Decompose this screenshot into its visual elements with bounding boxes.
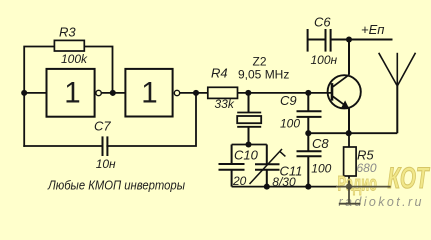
crystal Z2 <box>237 93 261 145</box>
wire bubble1 to node B <box>102 92 126 94</box>
ground <box>348 187 350 204</box>
op-amp U1 inverter 1 <box>47 69 102 117</box>
svg-text:C7: C7 <box>94 118 111 133</box>
svg-text:10н: 10н <box>96 157 116 171</box>
wire R5 to rail <box>348 181 350 187</box>
supply junction <box>346 36 352 42</box>
svg-text:КОТ: КОТ <box>388 162 431 195</box>
svg-text:1: 1 <box>64 76 80 109</box>
svg-text:Z2: Z2 <box>253 55 267 69</box>
svg-text:100k: 100k <box>61 52 88 66</box>
wire C7 left <box>24 145 102 147</box>
wire emitter rail <box>308 132 397 134</box>
capacitor C9 <box>297 93 322 133</box>
emitter antenna junction <box>346 130 352 136</box>
svg-text:20: 20 <box>232 174 247 188</box>
antenna <box>379 53 416 133</box>
wire R4 to base <box>238 92 333 94</box>
resistor R5 <box>344 133 357 181</box>
svg-text:R4: R4 <box>211 66 228 81</box>
C9 C8 emitter junction <box>305 130 311 136</box>
svg-text:radiokot.ru: radiokot.ru <box>339 195 422 209</box>
capacitor C11 trimmer <box>255 145 280 187</box>
svg-text:R3: R3 <box>59 24 76 39</box>
svg-text:100: 100 <box>311 162 331 176</box>
wire left vertical node A <box>24 47 54 147</box>
wire cap bank top <box>232 144 267 146</box>
svg-text:100: 100 <box>280 116 300 130</box>
C11 bottom junction <box>264 184 270 190</box>
node C junction <box>193 90 199 96</box>
svg-text:Любые КМОП инверторы: Любые КМОП инверторы <box>47 178 185 193</box>
wire C7 right to node C <box>107 93 196 146</box>
svg-text:C10: C10 <box>234 148 259 163</box>
capacitor C10 <box>219 145 245 187</box>
C8 bottom junction <box>305 184 311 190</box>
capacitor C8 <box>297 133 322 186</box>
capacitor C7 <box>103 136 108 156</box>
crystal bottom junction <box>245 141 251 147</box>
resistor R3 <box>54 40 84 51</box>
wire ground rail under watermark <box>336 186 391 188</box>
svg-text:+Еп: +Еп <box>361 22 384 37</box>
svg-text:C8: C8 <box>312 136 329 151</box>
svg-text:C9: C9 <box>280 93 297 108</box>
svg-text:33k: 33k <box>215 97 235 111</box>
resistor R4 <box>208 87 238 98</box>
svg-text:C6: C6 <box>314 15 331 30</box>
svg-text:1: 1 <box>141 76 157 109</box>
crystal top junction <box>245 90 251 96</box>
wire inverter1 input <box>24 92 46 94</box>
svg-text:9,05 MHz: 9,05 MHz <box>238 68 289 82</box>
op-amp U2 inverter 2 <box>125 69 179 117</box>
capacitor C6 <box>308 29 393 52</box>
node B junction <box>110 90 116 96</box>
ground rail wire <box>232 186 337 188</box>
trimmer arrow C11 <box>250 149 286 184</box>
transistor Q1 <box>328 40 361 134</box>
R5 bottom junction <box>346 184 352 190</box>
wire bubble2 to R4 <box>180 92 207 94</box>
svg-text:100н: 100н <box>311 53 338 67</box>
node A junction <box>21 90 27 96</box>
svg-text:8/30: 8/30 <box>272 175 296 189</box>
wire R3 right to node B <box>84 47 112 93</box>
C9 top junction <box>305 90 311 96</box>
svg-text:Радио: Радио <box>338 172 378 195</box>
